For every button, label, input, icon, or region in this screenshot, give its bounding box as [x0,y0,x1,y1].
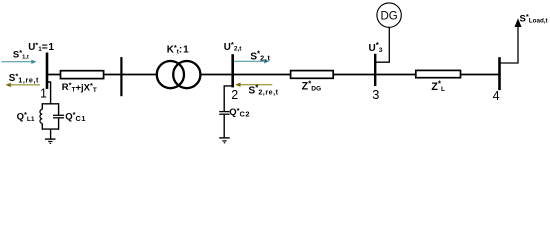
wire DG to bus 3 [375,27,389,62]
ground (bus 1 shunt) [45,139,56,143]
generator DG [377,3,401,27]
arrow S*1,t (blue, into bus 1) [2,60,37,64]
bus 3 [374,54,376,86]
svg-text:U*1=1: U*1=1 [28,40,55,53]
wire to ground 1 [50,129,52,139]
arrow S*Load,t [515,18,522,27]
arrow S*2,re,t (olive, into bus 2) [235,83,272,87]
wire bus 1 shunt drop [47,82,51,104]
ground (bus 2 shunt) [219,138,230,143]
svg-text:1: 1 [40,86,47,100]
wire shunt loop bottom [42,128,58,130]
arrow S*1,re,t (olive, out of bus 1) [6,83,41,87]
impedance Z*L [416,70,461,77]
bus 1 [46,53,49,90]
node transformer primary bus [120,57,122,96]
svg-text:4: 4 [493,89,500,103]
svg-text:2: 2 [231,88,238,102]
bus 2 [231,54,234,87]
wire shunt loop top [42,103,58,105]
transformer K*t:1 [157,61,201,88]
svg-text:K*t:1: K*t:1 [167,43,190,56]
svg-text:3: 3 [372,87,379,102]
svg-text:DG: DG [380,10,397,22]
wire bus 2 shunt drop [224,86,233,111]
wire load tap at bus 4 [500,27,519,63]
wire main feeder line [47,74,500,76]
resistor R*T+jX*T [61,71,104,79]
bus 4 [498,57,501,90]
arrow S*2,t (blue, out of bus 2) [234,59,269,63]
capacitor Q*C1 [53,103,64,130]
impedance Z*DG [291,71,334,79]
inductor Q*L1 [40,103,42,130]
capacitor Q*C2 [219,112,229,138]
